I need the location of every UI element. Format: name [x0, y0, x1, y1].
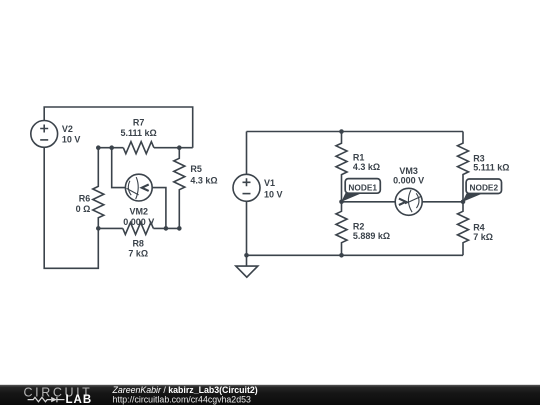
svg-text:R8: R8 — [132, 239, 144, 249]
svg-text:5.111 kΩ: 5.111 kΩ — [120, 128, 156, 138]
svg-text:0.000 V: 0.000 V — [123, 217, 154, 227]
resistor R2 — [336, 202, 347, 256]
junction ground — [244, 253, 249, 258]
svg-text:4.3 kΩ: 4.3 kΩ — [353, 162, 380, 172]
svg-text:5.111 kΩ: 5.111 kΩ — [473, 163, 509, 173]
svg-text:7 kΩ: 7 kΩ — [473, 232, 493, 242]
svg-text:R2: R2 — [353, 222, 365, 232]
wire top row right — [247, 131, 464, 133]
wire middle row, VM3 to NODE2 — [422, 201, 463, 203]
wire bottom row left, right segment — [153, 227, 179, 229]
svg-text:NODE2: NODE2 — [470, 183, 499, 193]
junction R6 bottom — [96, 226, 101, 231]
svg-text:R6: R6 — [79, 194, 91, 204]
svg-text:VM2: VM2 — [130, 207, 149, 217]
wire V1 top stub — [246, 132, 248, 175]
svg-text:7 kΩ: 7 kΩ — [128, 249, 148, 259]
junction R1 top — [339, 129, 344, 134]
svg-text:0.000 V: 0.000 V — [393, 175, 424, 185]
wire node row left, left segment — [98, 147, 123, 149]
CircuitLab logo glyph — [28, 397, 65, 402]
resistor R7 — [123, 142, 154, 154]
svg-text:R4: R4 — [473, 223, 485, 233]
svg-text:4.3 kΩ: 4.3 kΩ — [190, 175, 217, 185]
svg-text:ZareenKabir / kabirz_Lab3(Circ: ZareenKabir / kabirz_Lab3(Circuit2) — [112, 385, 258, 395]
wire bottom left loop — [44, 147, 98, 268]
resistor R6 — [93, 148, 104, 229]
resistor R4 — [458, 202, 469, 256]
node NODE1 flag — [341, 179, 380, 202]
footer bar — [0, 385, 540, 405]
junction R6 top — [96, 145, 101, 150]
resistor R8 — [123, 222, 154, 234]
junction node NODE1 — [339, 200, 344, 205]
junction VM2 right lead — [164, 226, 169, 231]
junction R5 bottom — [177, 226, 182, 231]
svg-text:R5: R5 — [190, 164, 202, 174]
ground — [236, 255, 258, 277]
wire VM2 right lead — [152, 188, 166, 229]
node NODE2 flag — [462, 179, 501, 202]
svg-text:LAB: LAB — [66, 394, 93, 405]
svg-text:10 V: 10 V — [62, 135, 81, 145]
junction R2 bottom — [339, 253, 344, 258]
svg-text:0 Ω: 0 Ω — [76, 204, 91, 214]
wire middle row, NODE1 to VM3 — [342, 201, 396, 203]
resistor R5 — [174, 148, 185, 229]
voltmeter VM3 symbol — [399, 190, 422, 212]
junction R5 top — [177, 145, 182, 150]
junction VM2 left lead — [109, 145, 114, 150]
wire bottom row right — [247, 254, 464, 256]
wire V1 bottom stub — [246, 201, 248, 255]
wire top left loop — [44, 107, 193, 148]
voltmeter VM2 symbol — [127, 177, 149, 199]
svg-text:5.889 kΩ: 5.889 kΩ — [353, 231, 390, 241]
voltage source V2 — [31, 120, 58, 147]
resistor R3 — [458, 132, 469, 202]
svg-text:R7: R7 — [133, 118, 145, 128]
svg-text:R1: R1 — [353, 152, 365, 162]
svg-text:V2: V2 — [62, 124, 73, 134]
voltage source V1 — [233, 174, 260, 201]
wire node row left, right segment — [154, 147, 193, 149]
svg-text:http://circuitlab.com/cr44cgvh: http://circuitlab.com/cr44cgvha2d53 — [113, 395, 251, 405]
svg-text:V1: V1 — [264, 178, 275, 188]
voltmeter VM2 — [125, 174, 152, 201]
svg-text:10 V: 10 V — [264, 189, 283, 199]
junction node NODE2 — [461, 200, 466, 205]
wire VM2 left lead — [112, 148, 126, 188]
svg-text:NODE1: NODE1 — [348, 182, 377, 192]
resistor R1 — [336, 132, 347, 202]
wire bottom row left, left segment — [98, 227, 123, 229]
voltmeter VM3 — [395, 188, 422, 215]
